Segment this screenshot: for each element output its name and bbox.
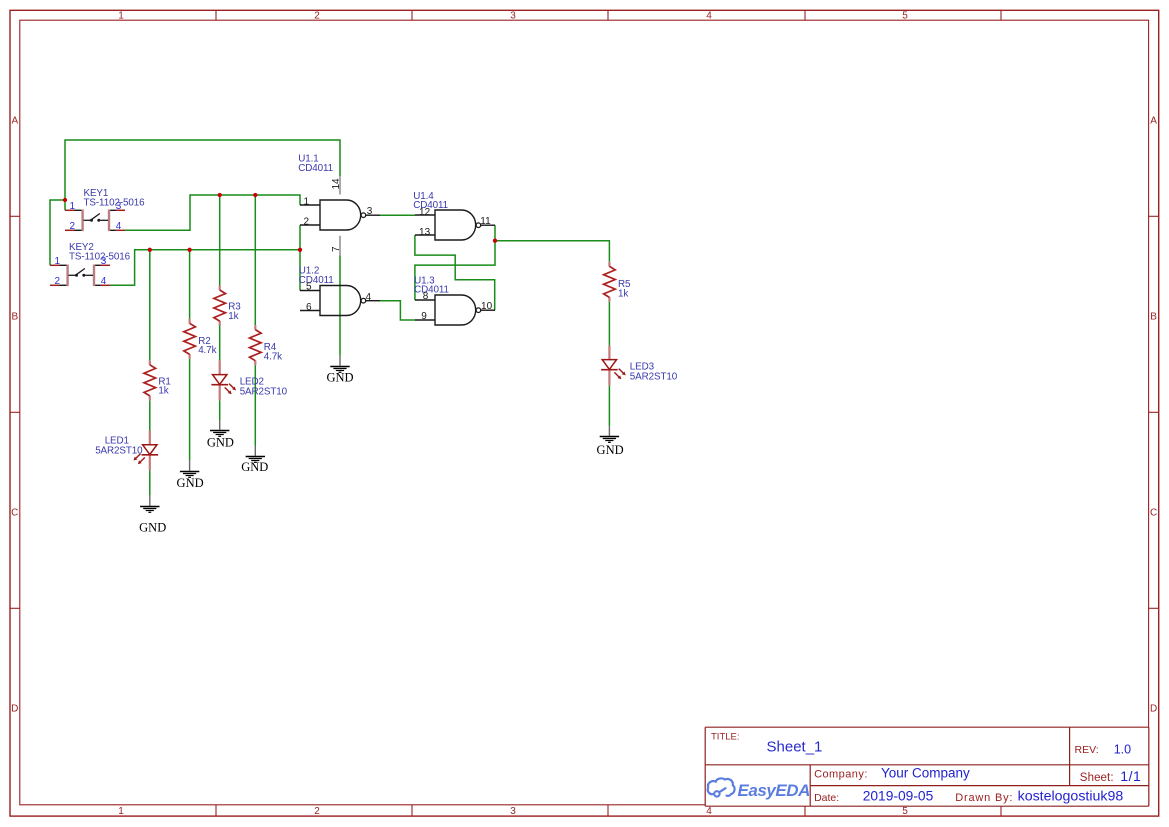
svg-text:2: 2 (314, 11, 320, 22)
svg-text:2: 2 (55, 276, 61, 287)
svg-text:12: 12 (419, 207, 431, 218)
svg-text:Sheet:: Sheet: (1080, 772, 1114, 784)
svg-text:Drawn By:: Drawn By: (955, 792, 1013, 804)
svg-text:B: B (1150, 312, 1157, 323)
svg-text:GND: GND (207, 435, 234, 449)
svg-text:3: 3 (510, 11, 516, 22)
svg-text:1: 1 (55, 256, 61, 267)
svg-text:1.0: 1.0 (1114, 742, 1131, 756)
svg-text:TS-1102-5016: TS-1102-5016 (84, 198, 146, 209)
svg-text:3: 3 (510, 806, 516, 817)
svg-text:5: 5 (902, 11, 908, 22)
svg-text:14: 14 (331, 178, 342, 190)
svg-text:D: D (11, 704, 18, 715)
svg-text:1: 1 (118, 11, 124, 22)
svg-text:7: 7 (331, 246, 342, 252)
svg-text:1: 1 (118, 806, 124, 817)
svg-text:10: 10 (481, 301, 493, 312)
svg-text:kostelogostiuk98: kostelogostiuk98 (1018, 788, 1124, 804)
svg-text:A: A (1150, 116, 1157, 127)
svg-text:9: 9 (421, 311, 427, 322)
svg-text:4: 4 (101, 276, 107, 287)
svg-text:4: 4 (706, 11, 712, 22)
svg-text:5: 5 (306, 281, 312, 292)
svg-text:CD4011: CD4011 (299, 275, 334, 286)
svg-text:Company:: Company: (814, 769, 868, 781)
svg-text:1k: 1k (618, 289, 628, 300)
svg-text:1: 1 (304, 197, 310, 208)
svg-text:4: 4 (706, 806, 712, 817)
svg-text:Your Company: Your Company (881, 765, 970, 780)
svg-text:Sheet_1: Sheet_1 (767, 739, 823, 756)
svg-text:2: 2 (304, 217, 310, 228)
svg-text:1k: 1k (158, 386, 168, 397)
svg-text:6: 6 (306, 302, 312, 313)
svg-text:GND: GND (139, 520, 166, 534)
svg-text:B: B (11, 312, 18, 323)
svg-text:CD4011: CD4011 (298, 163, 333, 174)
svg-text:C: C (11, 508, 18, 519)
svg-text:2: 2 (70, 221, 76, 232)
svg-text:GND: GND (597, 443, 624, 457)
svg-text:C: C (1150, 508, 1157, 519)
svg-text:GND: GND (326, 370, 353, 384)
svg-text:A: A (11, 116, 18, 127)
svg-text:GND: GND (177, 476, 204, 490)
svg-text:1k: 1k (228, 311, 238, 322)
svg-text:4.7k: 4.7k (264, 352, 282, 363)
svg-text:CD4011: CD4011 (414, 284, 449, 295)
svg-text:4.7k: 4.7k (198, 345, 216, 356)
svg-text:4: 4 (366, 292, 372, 303)
svg-text:2: 2 (314, 806, 320, 817)
svg-text:11: 11 (480, 216, 491, 227)
svg-text:1: 1 (70, 201, 76, 212)
svg-text:5AR2ST10: 5AR2ST10 (630, 372, 678, 383)
svg-text:5: 5 (902, 806, 908, 817)
svg-text:5AR2ST10: 5AR2ST10 (95, 446, 143, 457)
svg-text:1/1: 1/1 (1120, 768, 1141, 784)
svg-text:TS-1102-5016: TS-1102-5016 (69, 252, 131, 263)
svg-text:4: 4 (116, 221, 122, 232)
svg-text:Date:: Date: (814, 792, 839, 804)
svg-text:5AR2ST10: 5AR2ST10 (240, 387, 288, 398)
svg-text:13: 13 (419, 227, 431, 238)
svg-text:D: D (1150, 704, 1157, 715)
svg-text:REV:: REV: (1075, 744, 1099, 756)
svg-text:3: 3 (367, 206, 373, 217)
svg-text:2019-09-05: 2019-09-05 (863, 788, 934, 803)
svg-text:8: 8 (423, 291, 429, 302)
svg-text:TITLE:: TITLE: (711, 731, 740, 742)
svg-text:EasyEDA: EasyEDA (738, 781, 811, 800)
svg-text:GND: GND (241, 460, 268, 474)
